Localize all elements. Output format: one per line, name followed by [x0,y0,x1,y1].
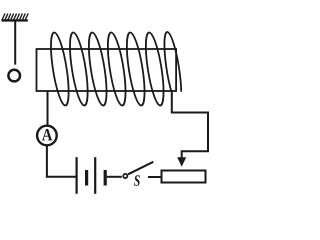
coil turn 3 [85,33,110,106]
coil turn 5 [123,33,148,106]
wire ammeter to bottom [46,146,48,178]
coil turn 2 [66,33,91,106]
coil turn 6 [142,33,167,106]
rheostat wiper arrowhead [177,157,186,167]
switch pivot [123,174,127,178]
solenoid core rectangle [37,49,177,91]
ceiling bar [2,19,28,21]
string [14,21,16,65]
ceiling support hatching [2,14,28,21]
ammeter A [37,126,57,146]
battery cell 1 short plate [85,170,88,186]
battery cell 2 long plate [94,157,96,194]
switch label S [134,175,140,186]
battery cell 2 short plate [104,170,107,186]
wire bottom left horizontal [46,176,76,178]
coil turn 4 [104,33,129,106]
wire battery to switch [107,176,122,178]
wire switch to rheostat [148,176,163,178]
wire solenoid left lead [47,91,49,125]
switch lever [128,162,153,175]
coil turn 1 [47,33,72,106]
ball bob [8,70,20,82]
rheostat body [162,171,206,183]
battery cell 1 long plate [75,157,77,194]
wire solenoid right lead [172,91,208,160]
